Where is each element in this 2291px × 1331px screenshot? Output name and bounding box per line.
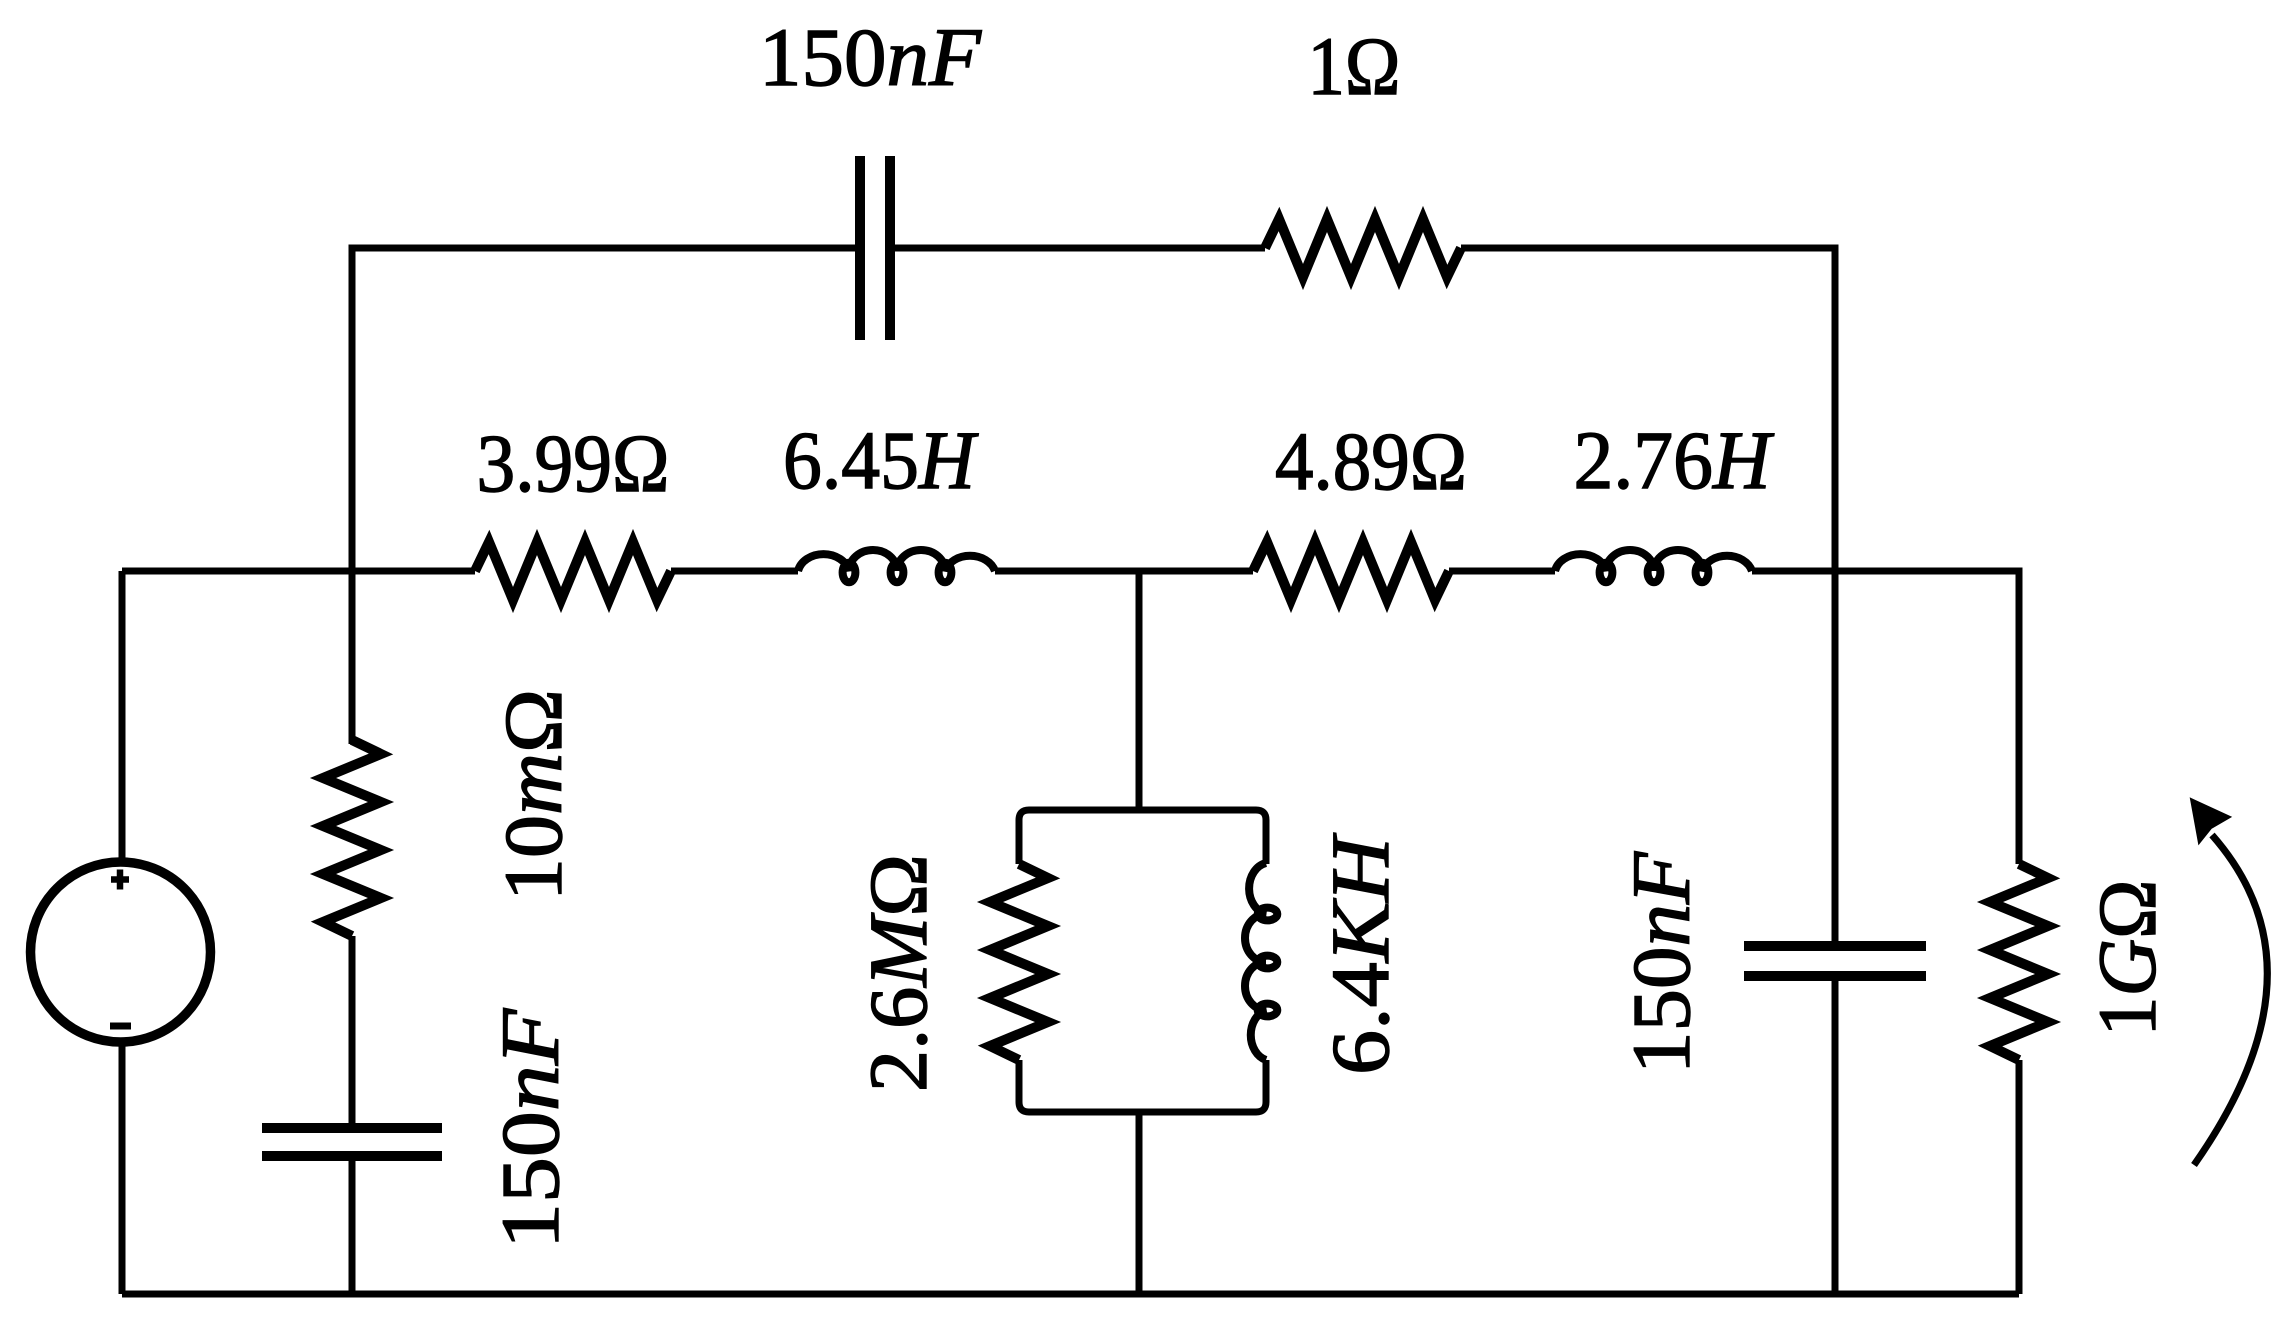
wire: node branch down from middle wire	[1136, 571, 1143, 810]
capacitor C=150nF (top)	[860, 156, 890, 340]
svg-text:2.76H: 2.76H	[1574, 414, 1775, 506]
wire: middle row between 3.99 and 6.45H	[671, 568, 798, 575]
resistor R=3.99 ohm	[475, 542, 671, 600]
wire: left vertical below source	[119, 1042, 126, 1294]
plus sign of source	[111, 870, 129, 890]
wire: middle row between 6.45H and 4.89	[995, 568, 1253, 575]
capacitor C=150nF (left vertical branch)	[262, 1128, 442, 1156]
wire: top wire from capacitor to 1-ohm resistor	[892, 245, 1265, 252]
inductor L=2.76H	[1555, 550, 1752, 582]
svg-text:150nF: 150nF	[1615, 851, 1707, 1074]
wire: branch x=352 between middle wire and 10m resistor	[349, 571, 356, 744]
wire: right vertical below capacitor to bottom	[1832, 976, 1839, 1294]
wire: middle row left segment	[122, 568, 475, 575]
capacitor C=150nF (right)	[1744, 946, 1926, 976]
svg-text:150nF: 150nF	[759, 11, 982, 103]
wire: middle row right segment turning down to 1G resistor	[1752, 571, 2019, 864]
wire: right loop bottom lead	[2016, 1060, 2023, 1294]
wire: left vertical above source	[119, 571, 126, 862]
voltage source V (left)	[31, 862, 211, 1042]
resistor R=1 ohm (top)	[1265, 219, 1461, 277]
wire: parallel block bottom bar	[1019, 1060, 1266, 1112]
resistor R=2.6M ohm (vertical, parallel block left)	[990, 864, 1048, 1060]
inductor L=6.45H	[798, 550, 995, 582]
svg-text:4.89Ω: 4.89Ω	[1275, 415, 1467, 507]
wire: middle row between 4.89 and 2.76H	[1449, 568, 1555, 575]
svg-text:1Ω: 1Ω	[1308, 20, 1401, 112]
wire: node branch from parallel block to bottom wire	[1136, 1112, 1143, 1294]
minus sign of source	[110, 1023, 131, 1030]
resistor R=10m ohm (vertical)	[323, 740, 381, 936]
wire: branch x=352 below capacitor	[349, 1156, 356, 1294]
svg-text:150nF: 150nF	[484, 1008, 576, 1249]
svg-text:2.6MΩ: 2.6MΩ	[852, 854, 944, 1092]
resistor R=1G ohm (right vertical)	[1990, 864, 2048, 1060]
svg-text:6.45H: 6.45H	[783, 414, 979, 506]
current arrow (curved, right side)	[2194, 835, 2267, 1165]
svg-text:10mΩ: 10mΩ	[487, 689, 579, 901]
wire: parallel block top bar	[1019, 810, 1266, 864]
inductor L=6.4KH (vertical, parallel block right)	[1245, 863, 1277, 1060]
wire: branch x=352 between resistor and capacitor	[349, 936, 356, 1128]
wire: top wire right segment and right vertical down to capacitor	[1461, 248, 1835, 946]
wire: bottom rail	[122, 1291, 2019, 1298]
resistor R=4.89 ohm	[1253, 542, 1449, 600]
svg-text:1GΩ: 1GΩ	[2081, 880, 2173, 1037]
svg-text:6.4KH: 6.4KH	[1314, 833, 1406, 1075]
wire: top-left vertical from branch up and top wire to capacitor	[352, 248, 858, 744]
svg-text:3.99Ω: 3.99Ω	[477, 417, 670, 509]
